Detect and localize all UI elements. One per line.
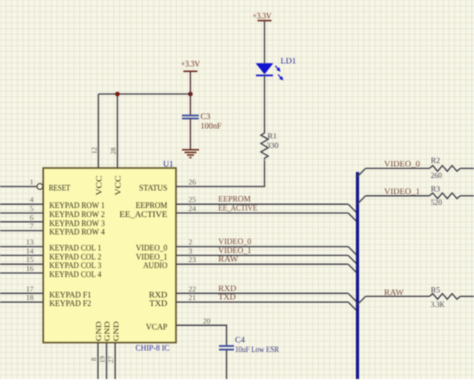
bus entry RAW	[348, 264, 356, 272]
wire pin 13	[0, 246, 43, 248]
pin name VIDEO_1	[136, 251, 168, 261]
pin number 8	[90, 357, 98, 361]
designator C4	[235, 335, 246, 345]
wire pin 16	[0, 272, 43, 274]
svg-text:VCAP: VCAP	[146, 321, 168, 331]
pin name KEYPAD ROW 4	[49, 227, 105, 237]
svg-text:LD1: LD1	[281, 56, 297, 66]
svg-text:VIDEO_0: VIDEO_0	[384, 158, 420, 168]
net label RAW (right)	[384, 287, 404, 297]
pin VCC riser wire (28)	[116, 94, 118, 168]
pin number 22	[189, 284, 197, 293]
LED LD1	[256, 63, 284, 80]
pin number 27	[107, 356, 115, 364]
svg-text:EE_ACTIVE: EE_ACTIVE	[218, 203, 257, 213]
pin name STATUS	[139, 183, 168, 193]
svg-text:24: 24	[189, 204, 197, 213]
wire net TXD	[176, 301, 348, 303]
pin number 18	[26, 293, 34, 302]
net label EE_ACTIVE	[218, 203, 257, 213]
svg-text:KEYPAD ROW 4: KEYPAD ROW 4	[49, 227, 105, 237]
pin number 5	[30, 204, 34, 213]
value 330	[267, 141, 279, 150]
svg-text:STATUS: STATUS	[139, 183, 168, 193]
svg-text:14: 14	[26, 246, 34, 255]
svg-text:26: 26	[189, 178, 197, 187]
pin name KEYPAD ROW 1	[49, 200, 105, 210]
bus entry RXD	[348, 293, 356, 301]
pin name KEYPAD F2	[49, 298, 91, 308]
pin 1 RESET bubble	[37, 184, 43, 190]
net label VIDEO_0	[218, 236, 251, 246]
bus entry EEPROM	[348, 204, 356, 212]
junction at power feed	[188, 92, 193, 97]
ground symbol	[182, 150, 199, 158]
value 3.3K	[431, 300, 445, 309]
svg-text:18: 18	[26, 293, 34, 302]
wire after R3	[460, 195, 474, 197]
wire junction to C3	[189, 94, 191, 115]
svg-text:2: 2	[189, 238, 193, 247]
svg-text:AUDIO: AUDIO	[143, 260, 167, 270]
net label VIDEO_0 (right)	[384, 158, 420, 168]
pin number 19	[98, 356, 106, 364]
power port +3.3V above LED	[253, 11, 273, 64]
pin number 21	[189, 293, 197, 302]
value 260	[431, 171, 442, 180]
wire VIDEO_1 right	[366, 195, 430, 197]
svg-text:RESET: RESET	[49, 183, 71, 193]
net label TXD	[218, 292, 236, 302]
svg-text:RAW: RAW	[218, 254, 238, 264]
svg-text:GND: GND	[103, 320, 112, 341]
designator U1	[163, 158, 173, 168]
bus entry TXD	[348, 302, 356, 310]
pin name AUDIO	[143, 260, 167, 270]
bus exit VIDEO_0	[358, 168, 366, 176]
pin number 28	[110, 147, 118, 155]
pin number 6	[30, 213, 34, 222]
svg-text:+3.3V: +3.3V	[181, 59, 201, 69]
pin number 24	[189, 204, 197, 213]
pin name GND (2)	[103, 320, 112, 341]
wire pin 15	[0, 263, 43, 265]
wire pin 4	[0, 203, 43, 205]
svg-text:VIDEO_1: VIDEO_1	[384, 186, 420, 196]
pin name GND (1)	[94, 320, 103, 341]
pin number 25	[189, 195, 197, 204]
wire STATUS to LED string	[176, 160, 265, 186]
wire VCC horizontal	[98, 93, 190, 95]
pin number 13	[26, 238, 34, 247]
pin number 12	[91, 147, 99, 155]
net label EEPROM	[218, 194, 251, 204]
svg-text:R5: R5	[431, 285, 440, 294]
svg-text:7: 7	[30, 222, 34, 231]
resistor R5	[430, 294, 461, 300]
wire pin 6	[0, 221, 43, 223]
net label VIDEO_1 (right)	[384, 186, 420, 196]
designator R5	[431, 285, 440, 294]
pin GND wire (8)	[97, 343, 99, 379]
wire pin 7	[0, 230, 43, 232]
pin name VCAP	[146, 321, 168, 331]
wire C4 to bottom	[226, 350, 228, 379]
comment CHIP-8 IC	[136, 343, 170, 353]
svg-text:TXD: TXD	[218, 292, 236, 302]
svg-text:19: 19	[98, 356, 106, 364]
pin number 20	[203, 316, 211, 325]
svg-text:VCC: VCC	[95, 176, 104, 196]
resistor R3	[430, 193, 461, 199]
svg-text:5: 5	[30, 204, 34, 213]
svg-text:VCC: VCC	[114, 176, 123, 196]
svg-text:260: 260	[431, 171, 442, 180]
svg-text:100nF: 100nF	[201, 121, 222, 131]
pin name VCC (left)	[95, 176, 104, 196]
wire after R2	[460, 167, 474, 169]
wire LED to R1	[264, 75, 266, 131]
wire pin 17	[0, 292, 43, 294]
bus exit RAW	[358, 296, 366, 304]
designator C3	[201, 111, 211, 121]
pin name VIDEO_0	[136, 243, 168, 253]
svg-text:20: 20	[203, 316, 211, 325]
svg-text:R2: R2	[431, 156, 440, 165]
wire pin 14	[0, 254, 43, 256]
value 10uF Low ESR	[235, 344, 279, 354]
wire VIDEO_0 right	[366, 167, 430, 169]
resistor R2	[430, 166, 461, 172]
net label VIDEO_1	[218, 245, 251, 255]
svg-text:28: 28	[110, 147, 118, 155]
capacitor C3	[182, 116, 199, 119]
designator LD1	[281, 56, 297, 66]
svg-text:520: 520	[431, 198, 442, 207]
svg-text:CHIP-8 IC: CHIP-8 IC	[136, 343, 170, 353]
bus exit VIDEO_1	[358, 196, 366, 204]
svg-text:8: 8	[90, 357, 98, 361]
pin name KEYPAD ROW 2	[49, 209, 105, 219]
svg-text:+3.3V: +3.3V	[253, 11, 273, 21]
wire net VIDEO_1	[176, 254, 348, 256]
pin number 16	[26, 264, 34, 273]
svg-text:23: 23	[189, 255, 197, 264]
bus entry VIDEO_1	[348, 255, 356, 263]
bus (vertical)	[356, 172, 359, 379]
bus entry EE_ACTIVE	[348, 213, 356, 221]
capacitor C4	[219, 346, 234, 350]
svg-text:16: 16	[26, 264, 34, 273]
net label RAW	[218, 254, 238, 264]
svg-text:15: 15	[26, 255, 34, 264]
designator R3	[431, 184, 440, 193]
svg-text:4: 4	[30, 195, 34, 204]
value 520	[431, 198, 442, 207]
pin number 4	[30, 195, 34, 204]
pin name GND (3)	[111, 320, 120, 341]
pin name EEPROM	[136, 200, 168, 210]
pin number 3	[189, 246, 193, 255]
pin name TXD	[149, 298, 167, 308]
pin name KEYPAD COL 1	[49, 243, 101, 253]
designator R2	[431, 156, 440, 165]
pin name KEYPAD F1	[49, 289, 91, 299]
pin number 15	[26, 255, 34, 264]
svg-text:GND: GND	[111, 320, 120, 341]
svg-text:3.3K: 3.3K	[431, 300, 445, 309]
svg-text:6: 6	[30, 213, 34, 222]
wire pin 5	[0, 212, 43, 214]
svg-text:RAW: RAW	[384, 287, 404, 297]
pin name VCC (right)	[114, 176, 123, 196]
resistor R1	[261, 132, 268, 160]
net label RXD	[218, 283, 236, 293]
wire net EEPROM	[176, 203, 348, 205]
wire pin 18	[0, 301, 43, 303]
wire pin 1	[0, 186, 37, 188]
svg-text:KEYPAD COL 4: KEYPAD COL 4	[49, 269, 102, 279]
pin VCC riser wire (12)	[97, 94, 99, 168]
svg-text:13: 13	[26, 238, 34, 247]
pin name KEYPAD COL 3	[49, 260, 101, 270]
svg-text:22: 22	[189, 284, 197, 293]
svg-text:17: 17	[26, 284, 34, 293]
junction at VCC riser	[115, 92, 120, 97]
svg-text:27: 27	[107, 356, 115, 364]
svg-text:1: 1	[30, 178, 34, 187]
pin GND wire (27)	[114, 343, 116, 379]
wire C3 to ground	[189, 119, 191, 150]
wire net VIDEO_0	[176, 246, 348, 248]
svg-text:C4: C4	[235, 335, 246, 345]
pin GND wire (19)	[106, 343, 108, 379]
pin name RESET	[49, 183, 71, 193]
pin number 17	[26, 284, 34, 293]
power port +3.3V above C3	[181, 59, 201, 95]
wire net EE_ACTIVE	[176, 212, 348, 214]
svg-text:3: 3	[189, 246, 193, 255]
svg-text:25: 25	[189, 195, 197, 204]
pin number 23	[189, 255, 197, 264]
pin name RXD	[149, 289, 168, 299]
svg-text:KEYPAD F2: KEYPAD F2	[49, 298, 91, 308]
IC U1 body	[43, 168, 176, 343]
wire net RXD	[176, 292, 348, 294]
pin name KEYPAD ROW 3	[49, 218, 105, 228]
svg-text:U1: U1	[163, 158, 173, 168]
svg-text:12: 12	[91, 147, 99, 155]
pin name KEYPAD COL 2	[49, 251, 101, 261]
wire after R5	[460, 295, 474, 297]
pin number 1	[30, 178, 34, 187]
pin number 7	[30, 222, 34, 231]
svg-text:330: 330	[267, 141, 279, 150]
pin number 14	[26, 246, 34, 255]
svg-text:R3: R3	[431, 184, 440, 193]
wire RAW right	[366, 295, 430, 297]
value 100nF	[201, 121, 222, 131]
pin name KEYPAD COL 4	[49, 269, 102, 279]
svg-text:R1: R1	[268, 132, 277, 141]
bus entry VIDEO_0	[348, 247, 356, 255]
svg-text:10uF Low ESR: 10uF Low ESR	[235, 344, 279, 354]
svg-text:21: 21	[189, 293, 197, 302]
pin name EE_ACTIVE	[119, 209, 167, 219]
svg-text:EE_ACTIVE: EE_ACTIVE	[119, 209, 167, 219]
pin number 2	[189, 238, 193, 247]
pin number 26	[189, 178, 197, 187]
wire VCAP to C4	[176, 325, 227, 346]
designator R1	[268, 132, 277, 141]
svg-text:C3: C3	[201, 111, 211, 121]
wire net RAW	[176, 263, 348, 265]
svg-text:TXD: TXD	[149, 298, 167, 308]
